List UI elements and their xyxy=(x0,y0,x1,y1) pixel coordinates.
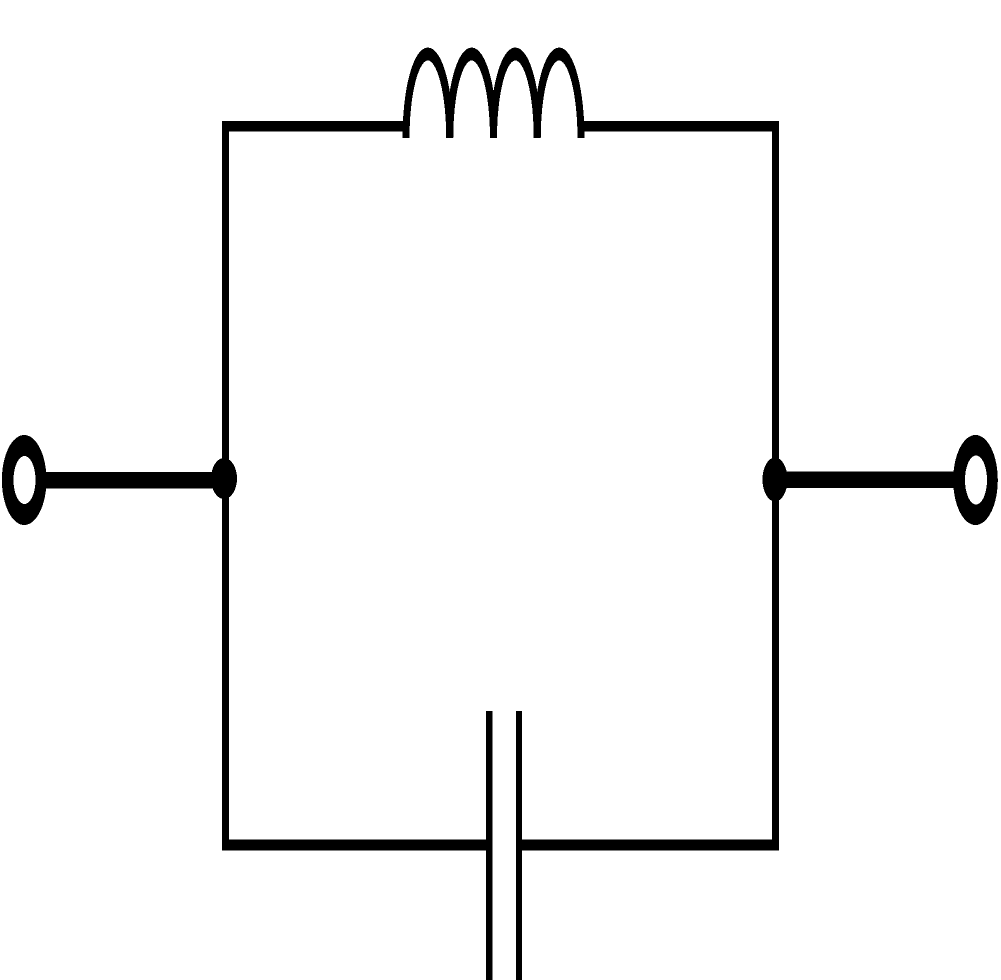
wire: left terminal lead xyxy=(42,472,228,489)
node: left junction dot xyxy=(211,458,237,499)
terminal: left port circle xyxy=(2,435,47,525)
wire: top-left horizontal segment to inductor xyxy=(222,121,406,132)
node: right junction dot xyxy=(763,458,788,502)
wire: top-right horizontal segment from inductor xyxy=(578,121,779,132)
wire: bottom-left horizontal segment to capacitor plate xyxy=(222,840,493,851)
terminal: right port circle xyxy=(953,435,998,525)
wire: bottom-right horizontal segment from capacitor plate xyxy=(521,840,779,851)
capacitor C1 right plate (vertical line through bottom branch, extends below) xyxy=(516,711,522,980)
capacitor C1 left plate (vertical line through bottom branch, extends below) xyxy=(486,711,493,980)
inductor L1 (four coil arcs on top branch) xyxy=(406,54,581,138)
wire: left vertical side of loop xyxy=(222,121,229,850)
wire: right terminal lead xyxy=(773,472,956,489)
wire: right vertical side of loop xyxy=(772,121,779,850)
